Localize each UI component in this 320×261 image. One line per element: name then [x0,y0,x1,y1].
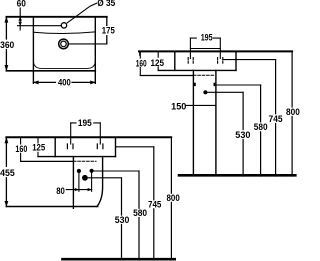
svg-text:530: 530 [115,215,130,225]
svg-text:455: 455 [0,168,15,178]
svg-text:150: 150 [171,102,186,112]
svg-text:530: 530 [235,130,250,140]
svg-text:60: 60 [17,0,26,8]
svg-text:800: 800 [167,193,180,203]
svg-text:580: 580 [133,208,147,218]
svg-text:160: 160 [15,144,27,154]
svg-text:745: 745 [148,199,161,209]
svg-text:160: 160 [136,58,147,68]
svg-text:360: 360 [0,40,14,50]
svg-text:745: 745 [269,114,283,124]
svg-text:125: 125 [151,58,165,68]
svg-text:800: 800 [286,107,300,117]
svg-text:125: 125 [32,143,45,153]
svg-text:195: 195 [78,118,92,128]
svg-text:175: 175 [102,26,115,36]
svg-text:580: 580 [254,122,268,132]
svg-text:Ø 35: Ø 35 [97,0,115,8]
svg-text:80: 80 [56,186,65,196]
svg-text:400: 400 [58,78,71,88]
svg-text:195: 195 [201,33,213,43]
